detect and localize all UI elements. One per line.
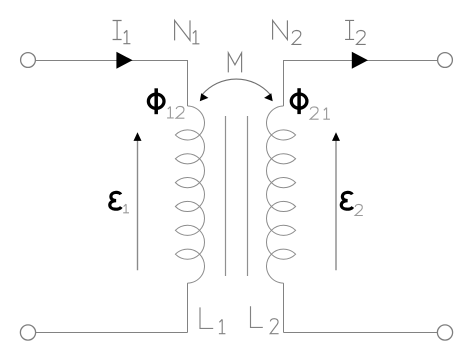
terminal top-left [21,53,36,68]
label M [228,53,241,73]
label I1 [113,21,131,44]
label N1 [175,20,200,43]
core line left [225,116,227,276]
terminal top-right [438,53,453,68]
label L1 [200,307,225,333]
flux label Phi12 [148,88,184,118]
label N2 [273,20,302,44]
wire top-right horizontal [284,60,438,62]
mutual coupling arrow M (double-headed arc) [200,79,273,101]
inductor L2 coil [266,106,295,283]
emf arrow e1 (up) [134,132,142,270]
terminal bottom-right [437,325,452,340]
wire bottom-right horizontal [284,332,438,334]
core line right [247,116,249,276]
wire top-left horizontal [36,60,188,62]
current arrow I2 [352,52,368,69]
label I2 [345,20,366,44]
wire left vertical top [187,60,189,106]
wire bottom-left horizontal [36,332,188,334]
emf arrow e2 (up) [332,132,340,270]
emf label e1 [110,192,129,212]
emf label e2 [341,192,363,215]
label L2 [251,306,279,333]
wire right vertical bottom [283,283,285,332]
terminal bottom-left [20,325,35,340]
inductor L1 coil [175,106,204,283]
flux label Phi21 [291,88,330,119]
wire right vertical top [283,60,285,106]
wire left vertical bottom [187,283,189,332]
current arrow I1 [116,52,132,69]
